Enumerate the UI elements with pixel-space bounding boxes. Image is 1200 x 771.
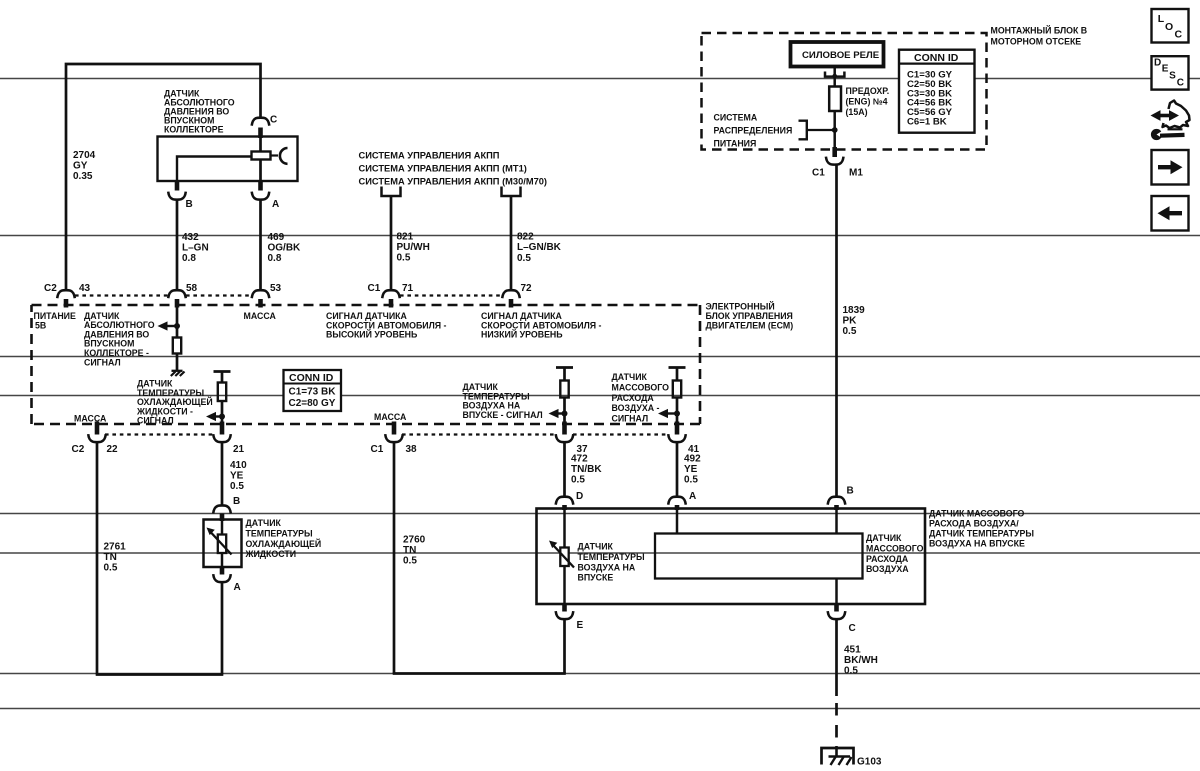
- connector group link 71-72 (dotted): [400, 294, 502, 296]
- connector pin 22 (ECM C2 bottom): [95, 422, 100, 435]
- net label ДАТЧИК ТЕМПЕРАТУРЫ ВОЗДУХА НА ВПУСКЕ - СИГНАЛ: [463, 382, 543, 420]
- svg-text:СИСТЕМА УПРАВЛЕНИЯ АКПП (МТ1): СИСТЕМА УПРАВЛЕНИЯ АКПП (МТ1): [359, 163, 527, 173]
- svg-text:МАССА: МАССА: [244, 311, 277, 321]
- svg-text:МАССА: МАССА: [74, 414, 107, 424]
- svg-text:1839: 1839: [843, 305, 866, 316]
- svg-text:M1: M1: [849, 168, 863, 179]
- CONN ID table (junction block): [899, 50, 975, 133]
- svg-text:2761: 2761: [104, 542, 127, 553]
- wire label 2704 GY 0.35: [73, 150, 96, 182]
- svg-text:BK/WH: BK/WH: [844, 655, 878, 666]
- wire relay to fuse clip: [833, 67, 836, 87]
- pullup resistor (MAF): [676, 368, 679, 381]
- svg-text:C1: C1: [368, 283, 381, 294]
- svg-text:0.5: 0.5: [397, 253, 411, 264]
- pullup resistor (coolant temp): [221, 372, 224, 383]
- wire inside MAP sensor from pin B to transducer: [177, 157, 252, 181]
- wire return bottom run (38 to E): [393, 672, 566, 675]
- label ДАТЧИК МАССОВОГО РАСХОДА ВОЗДУХА (inner): [866, 533, 924, 574]
- label ДАТЧИК ТЕМПЕРАТУРЫ ОХЛАЖДАЮЩЕЙ ЖИДКОСТИ: [245, 518, 322, 559]
- svg-text:0.8: 0.8: [268, 253, 282, 264]
- net label ДАТЧИК МАССОВОГО РАСХОДА ВОЗДУХА - СИГНАЛ: [612, 372, 670, 424]
- svg-text:ПИТАНИЯ: ПИТАНИЯ: [714, 139, 757, 149]
- svg-text:C2: C2: [72, 444, 85, 455]
- wire fuse to connector M1: [833, 111, 836, 150]
- connector group link 58-53 (dotted): [186, 294, 252, 296]
- wire 472 TN/BK from ECM pin 37 to IAT pin D: [563, 441, 566, 496]
- svg-text:YE: YE: [230, 471, 244, 482]
- svg-text:L: L: [1158, 13, 1165, 25]
- off-page bracket right (VSS low): [502, 187, 521, 197]
- branch wire to СИСТЕМА РАСПРЕДЕЛЕНИЯ ПИТАНИЯ: [807, 129, 835, 131]
- net label ДАТЧИК АБСОЛЮТНОГО ДАВЛЕНИЯ ВО ВПУСКНОМ КОЛЛЕКТОРЕ - СИГНАЛ: [84, 311, 155, 368]
- connector pin 37 (ECM C1 bottom): [562, 422, 567, 435]
- svg-text:0.8: 0.8: [182, 253, 196, 264]
- nav icon LOC: [1152, 9, 1189, 43]
- svg-text:469: 469: [268, 232, 285, 243]
- svg-text:НИЗКИЙ УРОВЕНЬ: НИЗКИЙ УРОВЕНЬ: [481, 329, 563, 340]
- svg-text:(15А): (15А): [846, 107, 868, 117]
- svg-text:E: E: [1162, 64, 1169, 75]
- net label СИГНАЛ ДАТЧИКА СКОРОСТИ АВТОМОБИЛЯ - ВЫСОКИЙ УРОВЕНЬ: [326, 311, 447, 340]
- svg-text:TN: TN: [403, 545, 416, 556]
- svg-text:GY: GY: [73, 161, 88, 172]
- svg-text:432: 432: [182, 232, 199, 243]
- svg-text:ДАТЧИК: ДАТЧИК: [866, 533, 902, 543]
- wire pullup to pin 41: [676, 398, 679, 424]
- signal arrow into MAP signal text: [167, 325, 177, 327]
- svg-text:TN: TN: [104, 552, 117, 563]
- MAP sensor box: ДАТЧИК АБСОЛЮТНОГО ДАВЛЕНИЯ ВО ВПУСКНОМ КОЛЛЕКТОРЕ: [158, 137, 298, 182]
- underhood junction block box (dashed): МОНТАЖНЫЙ БЛОК В МОТОРНОМ ОТСЕКЕ: [702, 33, 987, 150]
- svg-text:C: C: [1177, 78, 1184, 89]
- svg-text:451: 451: [844, 645, 861, 656]
- svg-text:L–GN/BK: L–GN/BK: [517, 242, 562, 253]
- wire MAF pin B to module: [835, 510, 838, 533]
- connector pin 53 (ECM C2): [252, 290, 270, 298]
- svg-text:21: 21: [233, 444, 245, 455]
- connector pin 41 (ECM C1 bottom): [675, 422, 680, 435]
- svg-text:822: 822: [517, 232, 534, 243]
- svg-text:КОЛЛЕКТОРЕ: КОЛЛЕКТОРЕ: [164, 125, 224, 135]
- svg-text:ДАТЧИК: ДАТЧИК: [246, 518, 282, 528]
- thermistor element (IAT): [560, 548, 568, 567]
- wire 432 L-GN from MAP pin B to ECM pin 58: [176, 199, 179, 290]
- svg-text:C1=73 BK: C1=73 BK: [289, 387, 337, 398]
- svg-text:ЖИДКОСТИ: ЖИДКОСТИ: [245, 549, 297, 559]
- nav icon diagnostics (arrows and wrench): [1151, 101, 1190, 141]
- svg-text:МОТОРНОМ ОТСЕКЕ: МОТОРНОМ ОТСЕКЕ: [991, 37, 1082, 47]
- ECM box (dashed): ЭЛЕКТРОННЫЙ БЛОК УПРАВЛЕНИЯ ДВИГАТЕЛЕМ: [32, 305, 701, 424]
- label СИСТЕМА РАСПРЕДЕЛЕНИЯ ПИТАНИЯ: [714, 113, 793, 149]
- wire 2761 TN from ECM pin 22: [96, 441, 99, 674]
- connector pin 21 (ECM C2 bottom): [220, 422, 225, 435]
- svg-text:ДВИГАТЕЛЕМ (ЕСМ): ДВИГАТЕЛЕМ (ЕСМ): [706, 321, 794, 331]
- svg-text:ДАТЧИК: ДАТЧИК: [612, 372, 648, 382]
- off-page bracket (power distribution): [799, 121, 807, 140]
- signal arrow IAT: [558, 412, 565, 414]
- svg-text:СИГНАЛ: СИГНАЛ: [137, 416, 174, 426]
- svg-text:ВПУСКЕ - СИГНАЛ: ВПУСКЕ - СИГНАЛ: [463, 410, 543, 420]
- svg-text:492: 492: [684, 454, 701, 465]
- wire 822 L-GN/BK to ECM pin 72: [510, 196, 513, 290]
- nav icon DESC: [1152, 56, 1189, 89]
- svg-text:РАСПРЕДЕЛЕНИЯ: РАСПРЕДЕЛЕНИЯ: [714, 126, 793, 136]
- connector pin C of MAP sensor: [252, 118, 270, 126]
- svg-text:ВОЗДУХА: ВОЗДУХА: [866, 564, 909, 574]
- label ЭЛЕКТРОННЫЙ БЛОК УПРАВЛЕНИЯ ДВИГАТЕЛЕМ (ECM): [706, 301, 794, 331]
- svg-text:ТЕМПЕРАТУРЫ: ТЕМПЕРАТУРЫ: [578, 552, 645, 562]
- connector pin C of MAF/IAT: [834, 604, 839, 612]
- connector pin 72 (ECM C1): [502, 290, 520, 298]
- wire transducer to vacuum port: [271, 154, 279, 156]
- svg-text:C2: C2: [44, 283, 57, 294]
- wire resistor to internal ground: [176, 354, 179, 371]
- junction on wire 58: [174, 323, 180, 329]
- svg-text:ДАТЧИК ТЕМПЕРАТУРЫ: ДАТЧИК ТЕМПЕРАТУРЫ: [929, 529, 1034, 539]
- svg-text:472: 472: [571, 454, 588, 465]
- connector group link 43-58 (dotted): [75, 294, 168, 296]
- connector pin B of coolant sensor: [213, 505, 231, 513]
- svg-text:410: 410: [230, 460, 247, 471]
- pressure transducer element of MAP sensor: [252, 152, 271, 160]
- connector pin A of MAP sensor: [258, 181, 263, 191]
- svg-text:БЛОК УПРАВЛЕНИЯ: БЛОК УПРАВЛЕНИЯ: [706, 311, 793, 321]
- svg-text:2760: 2760: [403, 535, 426, 546]
- connector pin A of MAF/IAT: [668, 497, 686, 505]
- svg-text:ЭЛЕКТРОННЫЙ: ЭЛЕКТРОННЫЙ: [706, 301, 775, 312]
- svg-text:РАСХОДА: РАСХОДА: [612, 393, 655, 403]
- svg-text:A: A: [272, 199, 279, 210]
- svg-text:ВОЗДУХА НА: ВОЗДУХА НА: [578, 562, 636, 572]
- svg-text:72: 72: [521, 283, 533, 294]
- svg-text:CONN ID: CONN ID: [914, 52, 959, 64]
- 5V pullup bar (IAT): [556, 366, 573, 369]
- svg-text:ОХЛАЖДАЮЩЕЙ: ОХЛАЖДАЮЩЕЙ: [246, 538, 322, 549]
- svg-text:B: B: [186, 199, 193, 210]
- svg-text:C2=80 GY: C2=80 GY: [289, 398, 336, 409]
- svg-text:A: A: [234, 582, 241, 593]
- fuse clip terminal: [825, 72, 844, 77]
- connector pin D of MAF/IAT: [556, 497, 574, 505]
- svg-text:C: C: [849, 623, 856, 634]
- connector pin 43 (ECM C2): [57, 290, 75, 298]
- svg-text:58: 58: [186, 283, 198, 294]
- svg-text:0.5: 0.5: [230, 481, 244, 492]
- wire 58 inside ECM: [176, 308, 179, 338]
- 5V pullup bar (coolant temp): [214, 370, 231, 373]
- connector pin B of MAP sensor: [175, 181, 180, 191]
- svg-text:МАССОВОГО: МАССОВОГО: [612, 382, 670, 392]
- wire module to pin C: [835, 579, 838, 604]
- signal arrow MAF: [668, 412, 678, 414]
- ECM internal ground hatch: [172, 370, 183, 372]
- svg-text:МОНТАЖНЫЙ БЛОК В: МОНТАЖНЫЙ БЛОК В: [991, 25, 1088, 36]
- vacuum port symbol (open crescent): [280, 148, 288, 164]
- svg-text:22: 22: [107, 444, 119, 455]
- svg-text:МАССА: МАССА: [374, 412, 407, 422]
- svg-text:СИЛОВОЕ РЕЛЕ: СИЛОВОЕ РЕЛЕ: [802, 50, 880, 61]
- svg-text:O: O: [1165, 21, 1173, 33]
- MAF electronics inner box: [655, 534, 863, 579]
- svg-text:821: 821: [397, 232, 414, 243]
- svg-text:C6=1 BK: C6=1 BK: [907, 117, 947, 128]
- svg-text:РАСХОДА ВОЗДУХА/: РАСХОДА ВОЗДУХА/: [929, 519, 1019, 529]
- svg-text:0.5: 0.5: [844, 666, 858, 677]
- relay K1: СИЛОВОЕ РЕЛЕ label box: [791, 42, 884, 67]
- 5V pullup bar (MAF): [669, 366, 686, 369]
- label ДАТЧИК ТЕМПЕРАТУРЫ ВОЗДУХА НА ВПУСКЕ (inside box): [578, 542, 645, 583]
- svg-text:TN/BK: TN/BK: [571, 464, 602, 475]
- svg-text:0.5: 0.5: [517, 253, 531, 264]
- wire return bottom run (22 to A): [96, 673, 224, 676]
- svg-text:L–GN: L–GN: [182, 243, 209, 254]
- svg-text:C1: C1: [812, 168, 825, 179]
- svg-text:ПРЕДОХР.: ПРЕДОХР.: [846, 86, 890, 96]
- CONN ID table (ECM): [284, 370, 342, 411]
- label МОНТАЖНЫЙ БЛОК В МОТОРНОМ ОТСЕКЕ: [991, 25, 1088, 47]
- svg-text:OG/BK: OG/BK: [268, 243, 302, 254]
- wire C-A through MAP sensor: [259, 138, 262, 180]
- svg-text:71: 71: [402, 283, 414, 294]
- svg-text:ВПУСКЕ: ВПУСКЕ: [578, 573, 614, 583]
- svg-text:38: 38: [406, 444, 418, 455]
- wire pullup to pin 21: [221, 401, 224, 423]
- svg-text:0.35: 0.35: [73, 171, 93, 182]
- thermistor element (coolant): [218, 535, 226, 554]
- coolant temperature sensor box: [204, 520, 242, 568]
- wire MAF pin E return: [563, 618, 566, 673]
- svg-text:0.5: 0.5: [403, 556, 417, 567]
- svg-text:ПИТАНИЕ: ПИТАНИЕ: [34, 311, 76, 321]
- svg-text:ДАТЧИК: ДАТЧИК: [578, 542, 614, 552]
- wire coolant sensor pin A return: [221, 581, 224, 674]
- svg-text:СИГНАЛ: СИГНАЛ: [612, 414, 649, 424]
- svg-text:PU/WH: PU/WH: [397, 242, 430, 253]
- svg-text:ДАТЧИК МАССОВОГО: ДАТЧИК МАССОВОГО: [929, 509, 1025, 519]
- wire MAF pin A to module: [676, 510, 679, 533]
- svg-text:0.5: 0.5: [104, 563, 118, 574]
- net label ДАТЧИК ТЕМПЕРАТУРЫ ОХЛАЖДАЮЩЕЙ ЖИДКОСТИ - СИГНАЛ: [136, 379, 213, 426]
- wire 492 YE from ECM pin 41 to MAF pin A: [676, 441, 679, 496]
- svg-text:2704: 2704: [73, 150, 96, 161]
- wire 821 PU/WH to ECM pin 71: [390, 196, 393, 290]
- label ДАТЧИК МАССОВОГО РАСХОДА ВОЗДУХА / ДАТЧИК ТЕМПЕРАТУРЫ ВОЗДУХА НА ВПУСКЕ: [929, 509, 1034, 549]
- svg-text:43: 43: [79, 283, 91, 294]
- wire 2704 GY: top run from node C up-left and down to ECM pin 43: [66, 64, 261, 290]
- svg-text:D: D: [576, 491, 583, 502]
- nav icon next (right arrow): [1152, 150, 1189, 185]
- svg-text:C: C: [1175, 29, 1183, 41]
- svg-text:РАСХОДА: РАСХОДА: [866, 554, 909, 564]
- wire 410 YE from ECM pin 21 to coolant sensor pin B: [221, 441, 224, 505]
- svg-text:D: D: [1154, 58, 1161, 69]
- svg-text:A: A: [689, 491, 696, 502]
- junction to power distribution: [832, 127, 838, 133]
- svg-text:C1: C1: [371, 444, 384, 455]
- svg-text:(ENG) №4: (ENG) №4: [846, 97, 888, 107]
- node: СИСТЕМА УПРАВЛЕНИЯ АКПП references: [359, 151, 548, 187]
- svg-text:PK: PK: [843, 316, 858, 327]
- svg-text:ТЕМПЕРАТУРЫ: ТЕМПЕРАТУРЫ: [246, 528, 313, 538]
- wire through coolant sensor: [221, 521, 224, 566]
- svg-text:СИГНАЛ: СИГНАЛ: [84, 357, 121, 367]
- connector pin B of MAF/IAT: [828, 497, 846, 505]
- svg-text:ВОЗДУХА НА ВПУСКЕ: ВОЗДУХА НА ВПУСКЕ: [929, 539, 1025, 549]
- connector group link 22-21 (dotted): [105, 433, 214, 435]
- off-page bracket left (VSS high): [382, 187, 401, 197]
- connector pin A of coolant sensor: [220, 567, 225, 575]
- svg-text:ВОЗДУХА -: ВОЗДУХА -: [612, 403, 660, 413]
- resistor (ECM internal, MAP signal): [173, 338, 181, 354]
- wire 451 dashed continuation to ground: [835, 703, 838, 747]
- net label СИГНАЛ ДАТЧИКА СКОРОСТИ АВТОМОБИЛЯ - НИЗКИЙ УРОВЕНЬ: [481, 311, 602, 340]
- wire pullup to pin 37: [563, 398, 566, 424]
- svg-text:0.5: 0.5: [843, 326, 857, 337]
- connector pin 38 (ECM C1 bottom): [392, 422, 397, 435]
- pullup resistor (IAT): [563, 368, 566, 381]
- wire 1839 PK from M1 to MAF pin B: [835, 164, 838, 497]
- svg-text:B: B: [847, 486, 854, 497]
- svg-text:53: 53: [270, 283, 282, 294]
- nav icon previous (left arrow): [1152, 196, 1189, 231]
- svg-text:СИСТЕМА: СИСТЕМА: [714, 113, 758, 123]
- wire 2760 TN from ECM pin 38: [393, 441, 396, 673]
- connector group link 38-37 (dotted): [402, 433, 556, 435]
- svg-text:E: E: [577, 620, 584, 631]
- connector pin M1 (junction block C1): [832, 147, 837, 157]
- connector pin E of MAF/IAT: [562, 604, 567, 612]
- svg-text:МАССОВОГО: МАССОВОГО: [866, 543, 924, 553]
- fuse F4: ПРЕДОХР. (ENG) №4 (15A): [829, 87, 841, 112]
- connector group link 37-41 (dotted): [573, 433, 668, 435]
- svg-text:S: S: [1169, 71, 1176, 82]
- connector pin 71 (ECM C1): [382, 290, 400, 298]
- net label ПИТАНИЕ 5В: [34, 311, 76, 331]
- svg-text:YE: YE: [684, 464, 698, 475]
- ground G103 symbol: [822, 748, 854, 765]
- svg-text:B: B: [233, 496, 240, 507]
- wire 469 OG/BK from MAP pin A to ECM pin 53: [259, 199, 262, 290]
- connector pin 58 (ECM C2): [168, 290, 186, 298]
- wire IAT pin D through sensor: [563, 510, 566, 603]
- svg-text:ВЫСОКИЙ УРОВЕНЬ: ВЫСОКИЙ УРОВЕНЬ: [326, 329, 418, 340]
- svg-text:СИСТЕМА УПРАВЛЕНИЯ АКПП: СИСТЕМА УПРАВЛЕНИЯ АКПП: [359, 151, 500, 161]
- svg-text:0.5: 0.5: [684, 475, 698, 486]
- svg-text:СИСТЕМА УПРАВЛЕНИЯ АКПП (М30/М: СИСТЕМА УПРАВЛЕНИЯ АКПП (М30/М70): [359, 176, 548, 186]
- svg-text:CONN ID: CONN ID: [289, 372, 334, 384]
- svg-text:0.5: 0.5: [571, 475, 585, 486]
- wire 451 BK/WH from MAF pin C: [835, 618, 838, 696]
- signal arrow coolant temp: [216, 415, 223, 417]
- svg-text:C: C: [270, 115, 277, 126]
- svg-text:5В: 5В: [35, 321, 46, 331]
- svg-text:G103: G103: [857, 757, 882, 768]
- MAF/IAT sensor outer box: [537, 509, 926, 605]
